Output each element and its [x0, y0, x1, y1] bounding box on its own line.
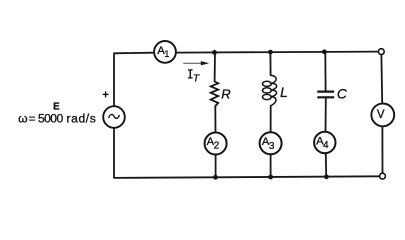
wire branch R top	[214, 52, 216, 81]
node dot L top	[268, 50, 273, 55]
svg-text:ω: ω	[18, 112, 27, 126]
svg-text:1: 1	[164, 49, 169, 59]
svg-text:rad/s: rad/s	[67, 112, 96, 126]
svg-text:=: =	[29, 112, 36, 126]
wire branch L top	[269, 52, 271, 75]
svg-text:3: 3	[269, 141, 275, 152]
svg-text:L: L	[280, 85, 288, 100]
wire branch R bottom	[214, 106, 216, 132]
svg-text:2: 2	[214, 141, 219, 152]
wire branch C to bottom rail	[325, 153, 327, 177]
svg-text:R: R	[221, 87, 230, 102]
resistor R	[211, 82, 219, 107]
svg-text:5000: 5000	[38, 112, 63, 126]
node dot R bottom	[213, 175, 218, 180]
node dot R top	[212, 50, 217, 55]
label IT	[188, 70, 193, 78]
wire branch C bottom	[325, 98, 327, 132]
inductor L	[263, 75, 277, 106]
wire voltmeter top	[380, 55, 383, 103]
wire branch L to bottom rail	[270, 154, 272, 177]
svg-text:T: T	[193, 74, 200, 85]
node dot C top	[322, 49, 327, 54]
node dot C bottom	[324, 174, 329, 179]
node dot L bottom	[268, 175, 273, 180]
terminal bottom right	[380, 173, 386, 179]
svg-text:V: V	[377, 109, 385, 121]
wire source bottom to bottom rail	[114, 128, 379, 178]
svg-text:4: 4	[323, 140, 329, 151]
wire branch C top	[324, 52, 326, 91]
terminal top right	[378, 49, 384, 55]
source circle	[103, 106, 125, 128]
ammeter A3	[260, 132, 282, 154]
plus sign	[103, 91, 109, 97]
wire branch L bottom	[270, 106, 272, 132]
ammeter A2	[205, 133, 227, 155]
ammeter A4	[314, 132, 335, 153]
wire top left vertical (source to top rail)	[114, 53, 153, 106]
capacitor C	[317, 92, 334, 98]
current arrow IT	[183, 61, 209, 65]
wire top rail from A1 to right terminal	[177, 52, 379, 53]
voltmeter V	[371, 104, 394, 127]
wire branch R to bottom rail	[215, 155, 217, 178]
svg-text:C: C	[337, 86, 348, 101]
wire voltmeter bottom	[381, 127, 383, 173]
ammeter A1	[154, 41, 176, 63]
